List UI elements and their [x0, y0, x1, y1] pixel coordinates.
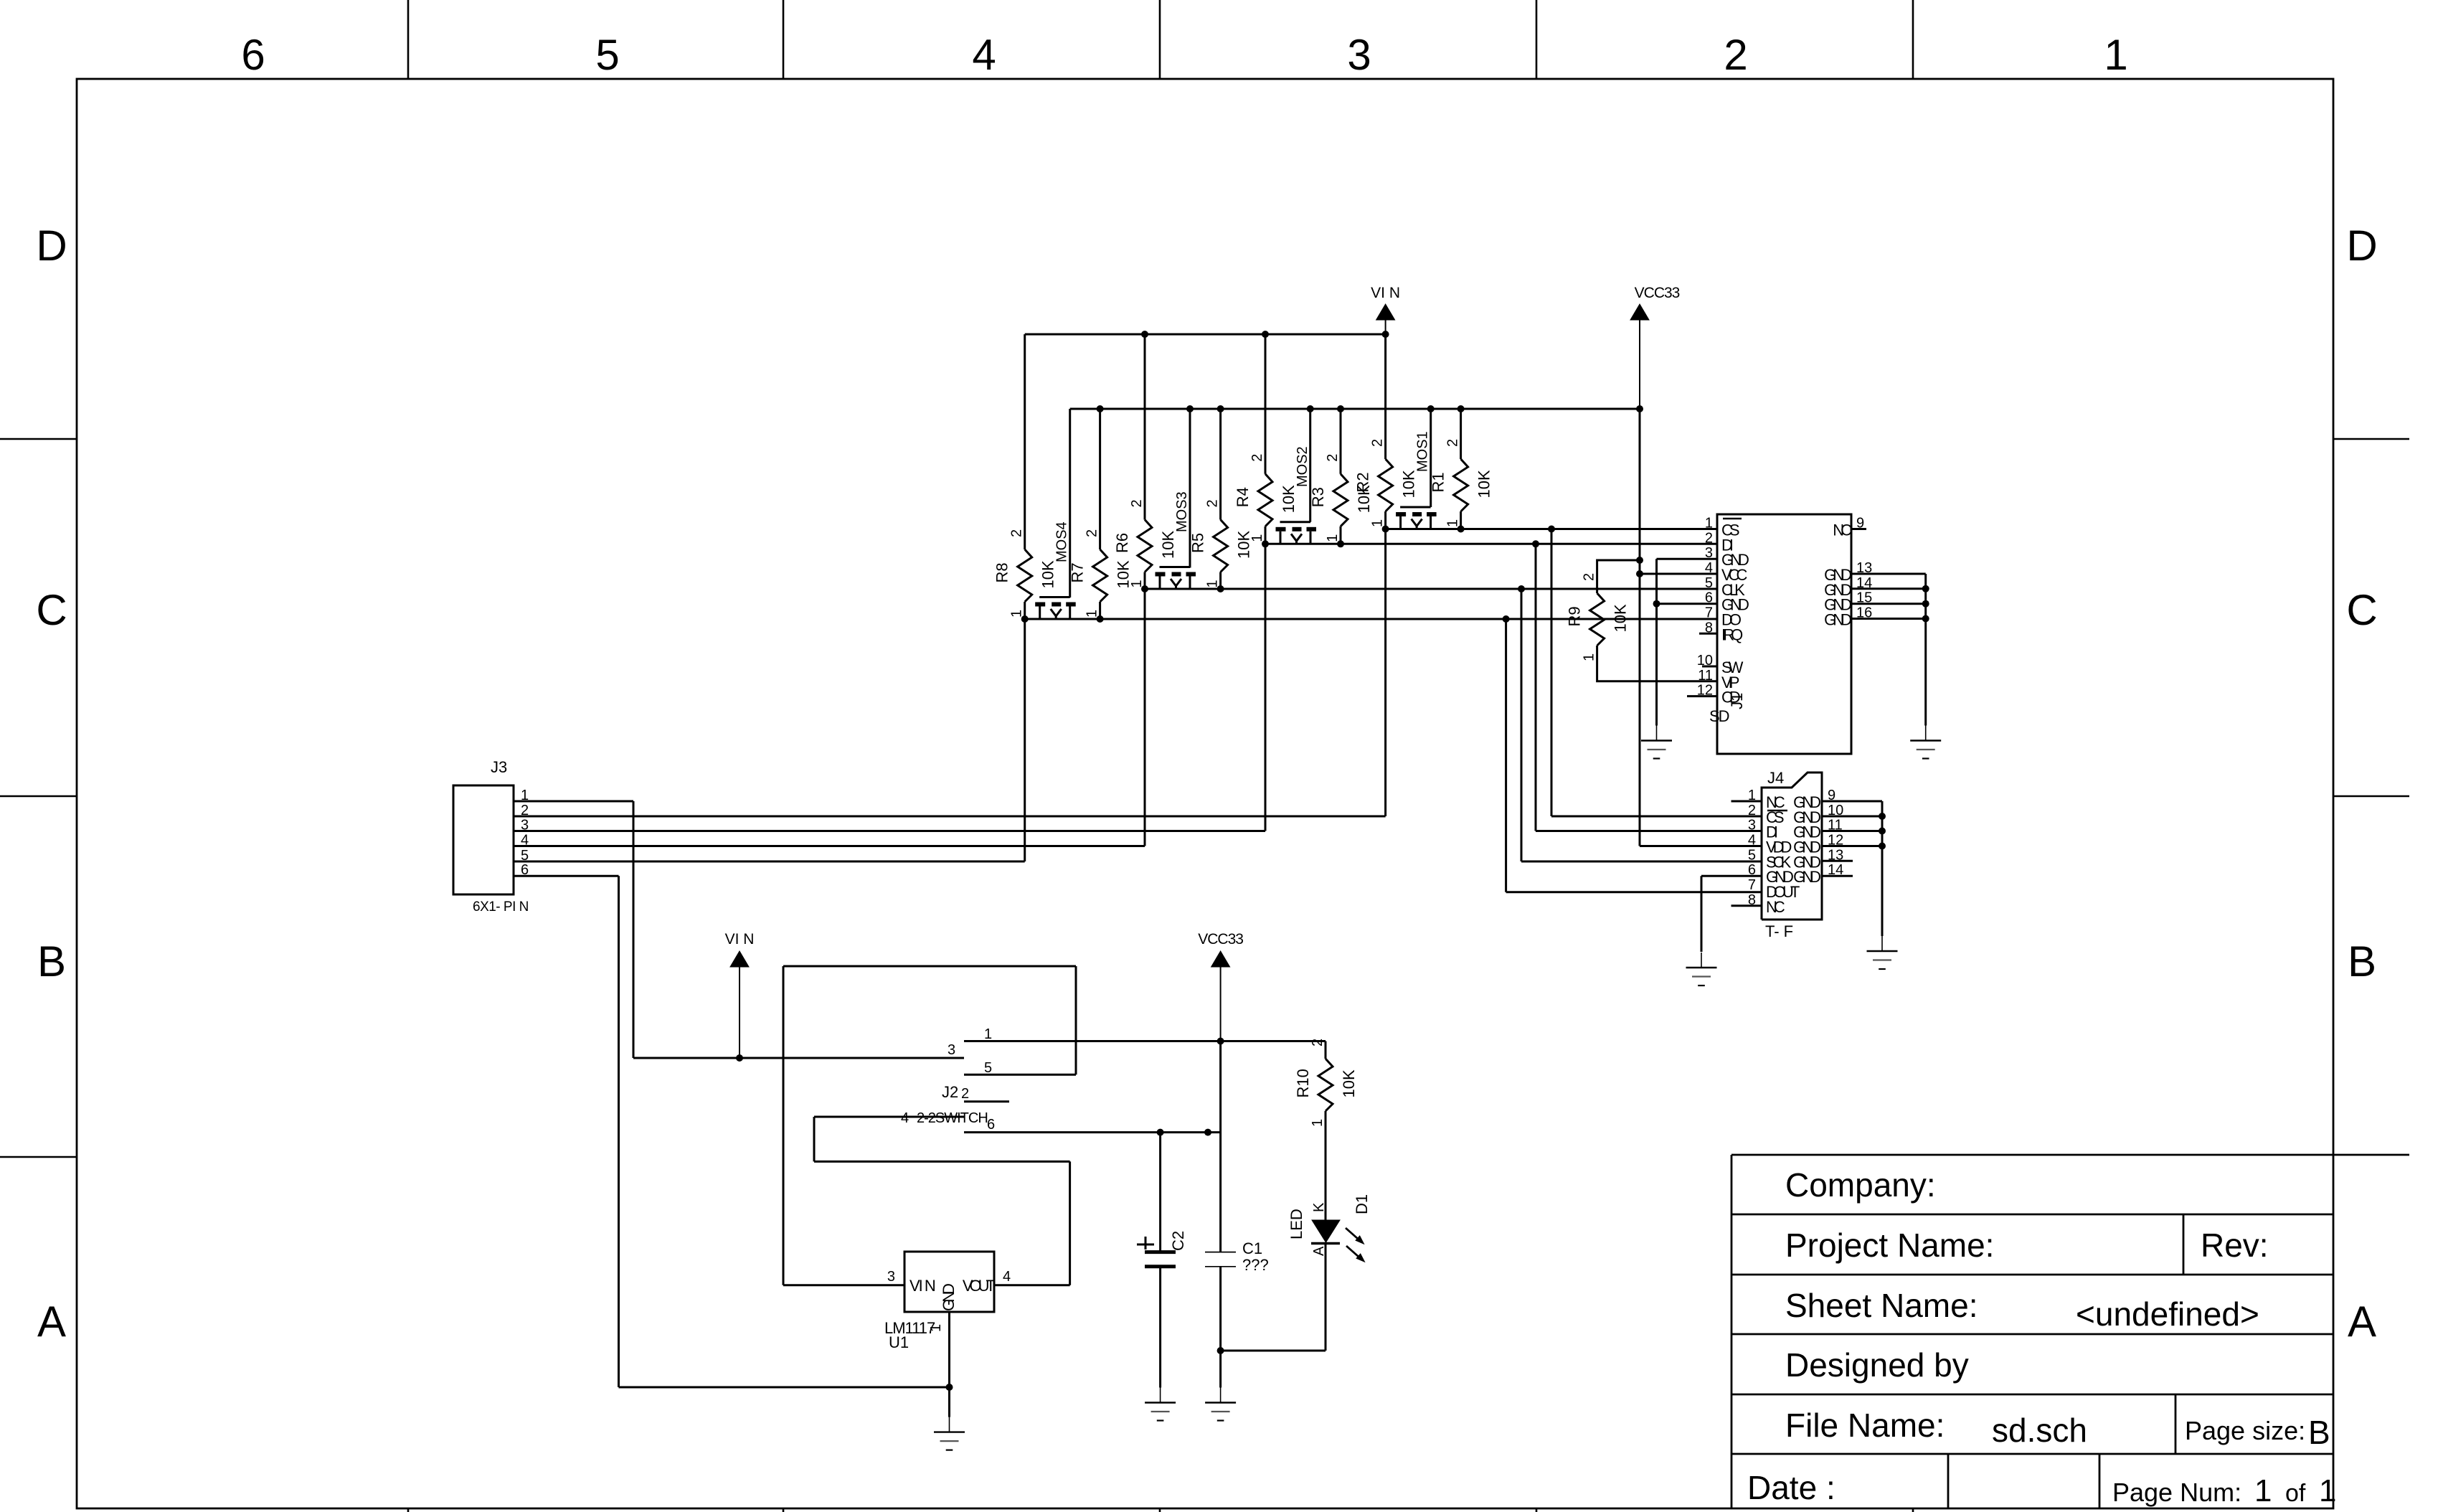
wire J4 unconnected stubs [1731, 801, 1762, 906]
svg-text:2: 2 [1748, 803, 1756, 818]
svg-text:10: 10 [1697, 653, 1713, 668]
ground C2 [1145, 1388, 1176, 1421]
resistor R7 10K [1069, 529, 1133, 619]
svg-text:1: 1 [1205, 580, 1221, 587]
svg-text:5: 5 [595, 31, 619, 79]
svg-text:1: 1 [2319, 1473, 2336, 1508]
svg-text:4: 4 [1003, 1269, 1011, 1285]
title block text page 1 of 1 [2254, 1473, 2336, 1508]
svg-text:10K: 10K [1475, 470, 1493, 498]
svg-text:11: 11 [1698, 668, 1713, 684]
svg-text:6: 6 [987, 1117, 995, 1133]
power symbol VCC33 lower [1198, 931, 1243, 1041]
svg-text:2: 2 [1310, 1039, 1326, 1046]
transistor MOS2 [1276, 446, 1317, 544]
svg-text:K: K [1311, 1202, 1327, 1212]
svg-text:<undefined>: <undefined> [2076, 1295, 2259, 1333]
svg-text:1: 1 [1129, 580, 1145, 587]
junction dot VIN lower stem [736, 1054, 743, 1062]
svg-text:R5: R5 [1189, 533, 1207, 553]
svg-text:4: 4 [972, 31, 996, 79]
svg-text:14: 14 [1828, 862, 1843, 878]
svg-text:2: 2 [961, 1086, 969, 1102]
svg-text:C: C [2346, 586, 2377, 634]
svg-text:4: 4 [1748, 833, 1756, 849]
wire R9 pin2 to VCC33 [1597, 560, 1640, 593]
svg-text:10: 10 [1828, 803, 1843, 818]
svg-text:Designed by: Designed by [1785, 1346, 1969, 1384]
svg-text:Page size:: Page size: [2185, 1416, 2305, 1445]
svg-text:Project Name:: Project Name: [1785, 1227, 1994, 1264]
junction dot J1 GND left [1653, 600, 1660, 608]
svg-text:6X1- PI N: 6X1- PI N [473, 899, 529, 915]
zone tick marks top [408, 0, 1913, 79]
svg-text:3: 3 [521, 818, 529, 833]
junction dots DO net [1021, 615, 1510, 623]
svg-text:C: C [36, 586, 67, 634]
svg-text:Date :: Date : [1747, 1469, 1835, 1506]
svg-text:R3: R3 [1309, 487, 1327, 507]
power symbol VIN lower [725, 931, 755, 1058]
ground J1 right [1910, 726, 1941, 759]
svg-text:6: 6 [1705, 590, 1713, 606]
svg-text:6: 6 [241, 31, 265, 79]
svg-text:2: 2 [1325, 454, 1341, 462]
svg-text:VCC33: VCC33 [1635, 285, 1680, 301]
connector J4 TF card box [1762, 772, 1822, 920]
U1 pin numbers [887, 1269, 1011, 1332]
regulator U1 LM1117 box [904, 1252, 994, 1312]
wire J4 pin6 ground stub [1701, 876, 1762, 952]
resistor R2 10K [1354, 439, 1418, 529]
svg-text:1: 1 [1370, 519, 1386, 527]
zone row labels right [2346, 222, 2377, 1346]
svg-text:R8: R8 [993, 562, 1011, 582]
wire R9 pin1 to J1 WP pin11 [1597, 646, 1717, 681]
J1 pin numbers left [1697, 516, 1713, 699]
zone row labels left [36, 222, 67, 1346]
wire R10 branch and LED to C1 node [1161, 1041, 1326, 1388]
svg-text:10K: 10K [1159, 531, 1177, 559]
svg-text:1: 1 [1009, 610, 1025, 618]
junction dots VIN rail [1141, 331, 1389, 338]
svg-text:C2: C2 [1169, 1231, 1187, 1251]
J1 pin names right [1824, 521, 1852, 629]
svg-text:MOS4: MOS4 [1054, 521, 1070, 562]
svg-text:NC: NC [1833, 521, 1852, 539]
svg-text:2-2SWITCH: 2-2SWITCH [917, 1110, 988, 1126]
svg-text:J2: J2 [942, 1083, 958, 1101]
svg-text:Company:: Company: [1785, 1166, 1936, 1204]
svg-text:2: 2 [521, 803, 529, 818]
svg-text:9: 9 [1828, 788, 1835, 803]
svg-text:D: D [36, 222, 67, 270]
svg-text:Sheet Name:: Sheet Name: [1785, 1287, 1978, 1324]
J4 pin names left [1766, 793, 1800, 916]
wire J2 pin4 to U1 VOUT [814, 1117, 1070, 1285]
junction dots DI net [1262, 540, 1539, 547]
svg-text:VI N: VI N [725, 931, 755, 948]
svg-text:2: 2 [1249, 454, 1265, 462]
resistor R9 10K [1566, 573, 1630, 661]
J4 pin numbers left [1748, 788, 1756, 908]
svg-text:7: 7 [1705, 605, 1713, 621]
svg-text:1: 1 [984, 1026, 992, 1042]
svg-text:2: 2 [1129, 499, 1145, 507]
ground U1 [934, 1417, 965, 1450]
svg-text:2: 2 [1445, 439, 1461, 447]
svg-text:GND: GND [1824, 611, 1851, 629]
svg-text:2: 2 [1009, 529, 1025, 537]
junction dot VCC33 at J2 pin1 line [1217, 1038, 1224, 1045]
power symbol VIN top [1371, 285, 1400, 334]
svg-text:1: 1 [1582, 653, 1597, 661]
wire J4 right GND chain [1822, 801, 1882, 936]
svg-text:R6: R6 [1113, 533, 1131, 553]
transistor MOS4 [1035, 521, 1076, 619]
svg-text:14: 14 [1856, 575, 1872, 591]
wire CLK net [514, 589, 1762, 861]
wire DO net [514, 619, 1762, 892]
transistor MOS1 [1396, 431, 1437, 529]
wire J2 pin6 to C2 C1 VCC33 node [964, 1041, 1221, 1252]
svg-text:5: 5 [1705, 575, 1713, 591]
svg-text:R4: R4 [1234, 487, 1252, 507]
svg-text:10K: 10K [1400, 470, 1418, 498]
svg-text:J3: J3 [491, 758, 507, 776]
junction dots J4 right GND [1879, 813, 1886, 850]
svg-text:Rev:: Rev: [2201, 1227, 2269, 1264]
svg-text:VI N: VI N [909, 1277, 935, 1295]
power symbol VCC33 top [1630, 285, 1680, 409]
svg-text:Page Num:: Page Num: [2112, 1478, 2241, 1507]
svg-text:5: 5 [521, 848, 529, 864]
svg-text:A: A [1311, 1246, 1327, 1256]
svg-text:A: A [2348, 1298, 2376, 1346]
svg-text:R10: R10 [1294, 1069, 1312, 1097]
svg-text:5: 5 [1748, 847, 1756, 863]
J3 pin numbers [521, 788, 529, 878]
svg-text:8: 8 [1748, 892, 1756, 908]
svg-text:7: 7 [1748, 877, 1756, 893]
svg-text:GND: GND [1793, 868, 1820, 886]
wire DI net [514, 544, 1762, 831]
svg-text:10K: 10K [1039, 560, 1057, 588]
transistor MOS3 [1156, 491, 1196, 589]
svg-text:B: B [2308, 1414, 2330, 1451]
svg-text:4: 4 [1705, 560, 1713, 576]
svg-text:MOS2: MOS2 [1295, 446, 1310, 487]
zone tick marks right [2333, 439, 2409, 796]
svg-text:C1: C1 [1242, 1239, 1262, 1257]
svg-text:1: 1 [1445, 519, 1461, 527]
svg-text:J4: J4 [1767, 769, 1784, 787]
ground C1 [1205, 1388, 1236, 1421]
svg-text:3: 3 [1347, 31, 1371, 79]
svg-text:B: B [2348, 937, 2376, 986]
svg-text:3: 3 [948, 1042, 955, 1058]
wire VIN rail net [1025, 334, 1386, 549]
junction dot U1 GND [946, 1384, 953, 1391]
svg-text:2: 2 [1205, 499, 1221, 507]
svg-text:D1: D1 [1353, 1194, 1371, 1214]
junction dot C1 LED node [1217, 1347, 1224, 1354]
zone tick marks left [0, 439, 77, 1157]
svg-text:LM1117: LM1117 [884, 1319, 935, 1337]
resistor R4 10K [1234, 454, 1298, 544]
resistor R5 10K [1189, 499, 1253, 589]
junction dots CS net [1382, 526, 1555, 533]
svg-text:10K: 10K [1280, 485, 1298, 513]
wire J2 pins1-5 VCC net to U1 VIN [783, 966, 1326, 1285]
svg-text:???: ??? [1242, 1256, 1269, 1274]
svg-text:11: 11 [1828, 818, 1843, 833]
svg-text:5: 5 [984, 1060, 992, 1076]
svg-text:1: 1 [1705, 516, 1713, 531]
svg-text:R9: R9 [1566, 606, 1584, 626]
junction dots J1 right GND [1922, 585, 1929, 623]
svg-text:SD: SD [1709, 707, 1729, 725]
wire J3 pin1 to switch J2 pin3 [514, 801, 964, 1058]
svg-text:9: 9 [1856, 516, 1864, 531]
svg-text:VCC33: VCC33 [1198, 931, 1243, 948]
wire J3 pin6 ground run [514, 876, 950, 1417]
title block grid [1731, 1155, 2409, 1508]
zone tick marks bottom [408, 1508, 1913, 1512]
svg-text:3: 3 [1748, 818, 1756, 833]
capacitor C1 [1205, 1239, 1269, 1274]
wire J2 pin2 stub [964, 1100, 1009, 1102]
svg-text:12: 12 [1828, 833, 1843, 849]
svg-text:MOS1: MOS1 [1415, 431, 1431, 472]
svg-text:MOS3: MOS3 [1174, 491, 1190, 532]
svg-text:1: 1 [2254, 1473, 2272, 1508]
svg-text:4: 4 [521, 833, 529, 849]
svg-text:16: 16 [1856, 605, 1872, 621]
svg-text:15: 15 [1856, 590, 1872, 606]
svg-text:T- F: T- F [1765, 922, 1793, 940]
connector J3 6x1 header box [453, 785, 514, 894]
svg-text:VOUT: VOUT [963, 1277, 996, 1295]
resistor R6 10K [1113, 499, 1177, 589]
svg-text:1: 1 [1310, 1119, 1326, 1127]
svg-text:D: D [2346, 222, 2377, 270]
svg-text:of: of [2285, 1480, 2306, 1507]
ground J4 pin6 [1686, 953, 1717, 986]
svg-text:8: 8 [1705, 620, 1713, 635]
junction dots J2 pin6 line [1157, 1129, 1211, 1136]
svg-text:R7: R7 [1069, 562, 1087, 582]
wire J1 GND left net [1657, 559, 1718, 725]
svg-text:I RQ: I RQ [1721, 625, 1743, 643]
resistor R10 10K [1294, 1039, 1358, 1127]
svg-text:10K: 10K [1340, 1069, 1358, 1097]
svg-text:2: 2 [1085, 529, 1100, 537]
svg-text:3: 3 [1705, 545, 1713, 561]
connector J1 SD socket box [1717, 514, 1851, 754]
svg-text:1: 1 [1085, 610, 1100, 618]
svg-text:1: 1 [1249, 534, 1265, 542]
svg-text:2: 2 [1705, 530, 1713, 546]
svg-text:GND: GND [940, 1284, 958, 1311]
LED D1 [1287, 1194, 1371, 1262]
resistor R3 10K [1309, 454, 1373, 544]
junction dots CLK net [1141, 585, 1525, 592]
svg-text:13: 13 [1856, 560, 1872, 576]
svg-text:2: 2 [1582, 573, 1597, 581]
svg-text:A: A [37, 1298, 66, 1346]
svg-text:4: 4 [901, 1110, 909, 1126]
wire VDD net VCC33 to J4 [1640, 845, 1762, 847]
svg-text:2: 2 [1724, 31, 1747, 79]
capacitor C2 polarized [1137, 1231, 1187, 1267]
svg-text:13: 13 [1828, 847, 1843, 863]
resistor R8 10K [993, 529, 1057, 619]
wire VCC33 rail net [1070, 409, 1717, 846]
J1 pin numbers right [1856, 516, 1872, 621]
svg-text:File Name:: File Name: [1785, 1407, 1945, 1444]
svg-text:LED: LED [1287, 1209, 1305, 1239]
J1 pin names left [1721, 519, 1749, 707]
wire J1 unconnected stubs [1687, 529, 1866, 696]
svg-text:R2: R2 [1354, 472, 1372, 492]
J4 pin names right [1793, 793, 1820, 886]
svg-text:1: 1 [1748, 788, 1756, 803]
zone column labels [241, 31, 2127, 79]
svg-text:2: 2 [1370, 439, 1386, 447]
svg-text:VI N: VI N [1371, 285, 1400, 301]
svg-text:sd.sch: sd.sch [1992, 1412, 2087, 1449]
svg-text:B: B [37, 937, 66, 986]
U1 pin names [909, 1277, 996, 1311]
svg-text:R1: R1 [1430, 472, 1447, 492]
svg-text:6: 6 [1748, 862, 1756, 878]
svg-text:6: 6 [521, 862, 529, 878]
junction dots VCC33 rail [1097, 405, 1643, 577]
switch J2 pin numbers [901, 1026, 995, 1133]
wire J1 right GND net [1851, 574, 1926, 726]
svg-text:1: 1 [1325, 534, 1341, 542]
ground J1 left [1641, 726, 1672, 759]
svg-text:3: 3 [887, 1269, 895, 1285]
svg-text:1: 1 [521, 788, 529, 803]
svg-text:10K: 10K [1612, 604, 1630, 632]
resistor R1 10K [1430, 439, 1493, 529]
J4 pin numbers right [1828, 788, 1843, 878]
ground J4 right [1867, 936, 1898, 969]
svg-text:1: 1 [2104, 31, 2127, 79]
wire CS net [514, 529, 1762, 817]
svg-text:J1: J1 [1728, 693, 1746, 709]
svg-text:12: 12 [1697, 683, 1713, 699]
